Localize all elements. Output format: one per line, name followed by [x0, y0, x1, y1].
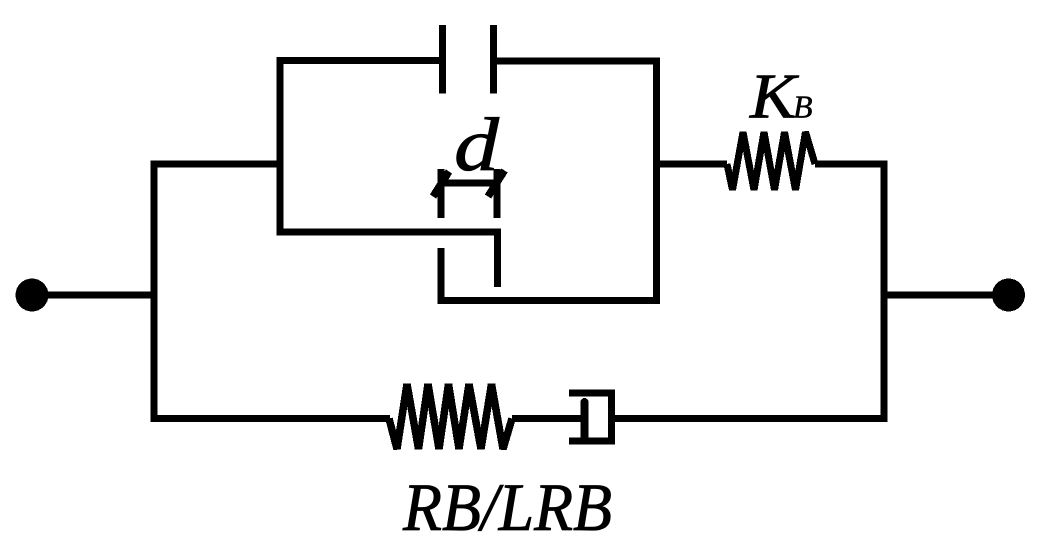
wire dashpot to right bus [611, 415, 888, 422]
capacitor gap plate left [439, 25, 446, 94]
wire box top-right run and right vertical [490, 61, 657, 300]
upper slider hook [277, 232, 498, 287]
dimension extension bar right [494, 169, 501, 218]
wire spring RB to dashpot piston [512, 415, 584, 422]
wire spring KB to right bus [815, 161, 888, 168]
wire left terminal to left bus [36, 292, 158, 299]
wire right bus to right terminal [884, 292, 1004, 299]
label KB subscript B [793, 97, 812, 118]
wire box to spring KB [653, 161, 727, 168]
dimension tick left [433, 172, 449, 197]
dashpot cylinder [569, 393, 612, 441]
dashpot piston [581, 402, 589, 436]
dimension tick right [488, 171, 505, 197]
wire left bus with top feed and bottom run [154, 164, 390, 419]
spring RB [389, 384, 512, 449]
wire box left vertical and top-left run [280, 61, 446, 236]
dimension extension bar left [438, 169, 445, 218]
wire right bus [881, 161, 888, 423]
svg-text:K: K [749, 61, 800, 132]
dimension line d [438, 180, 501, 187]
spring KB [727, 132, 815, 190]
terminal dot left [16, 279, 49, 312]
lower slider hook [441, 248, 660, 301]
svg-text:RB/LRB: RB/LRB [402, 469, 612, 545]
terminal dot right [992, 279, 1025, 312]
capacitor gap plate right [490, 25, 497, 94]
svg-text:d: d [454, 103, 500, 187]
